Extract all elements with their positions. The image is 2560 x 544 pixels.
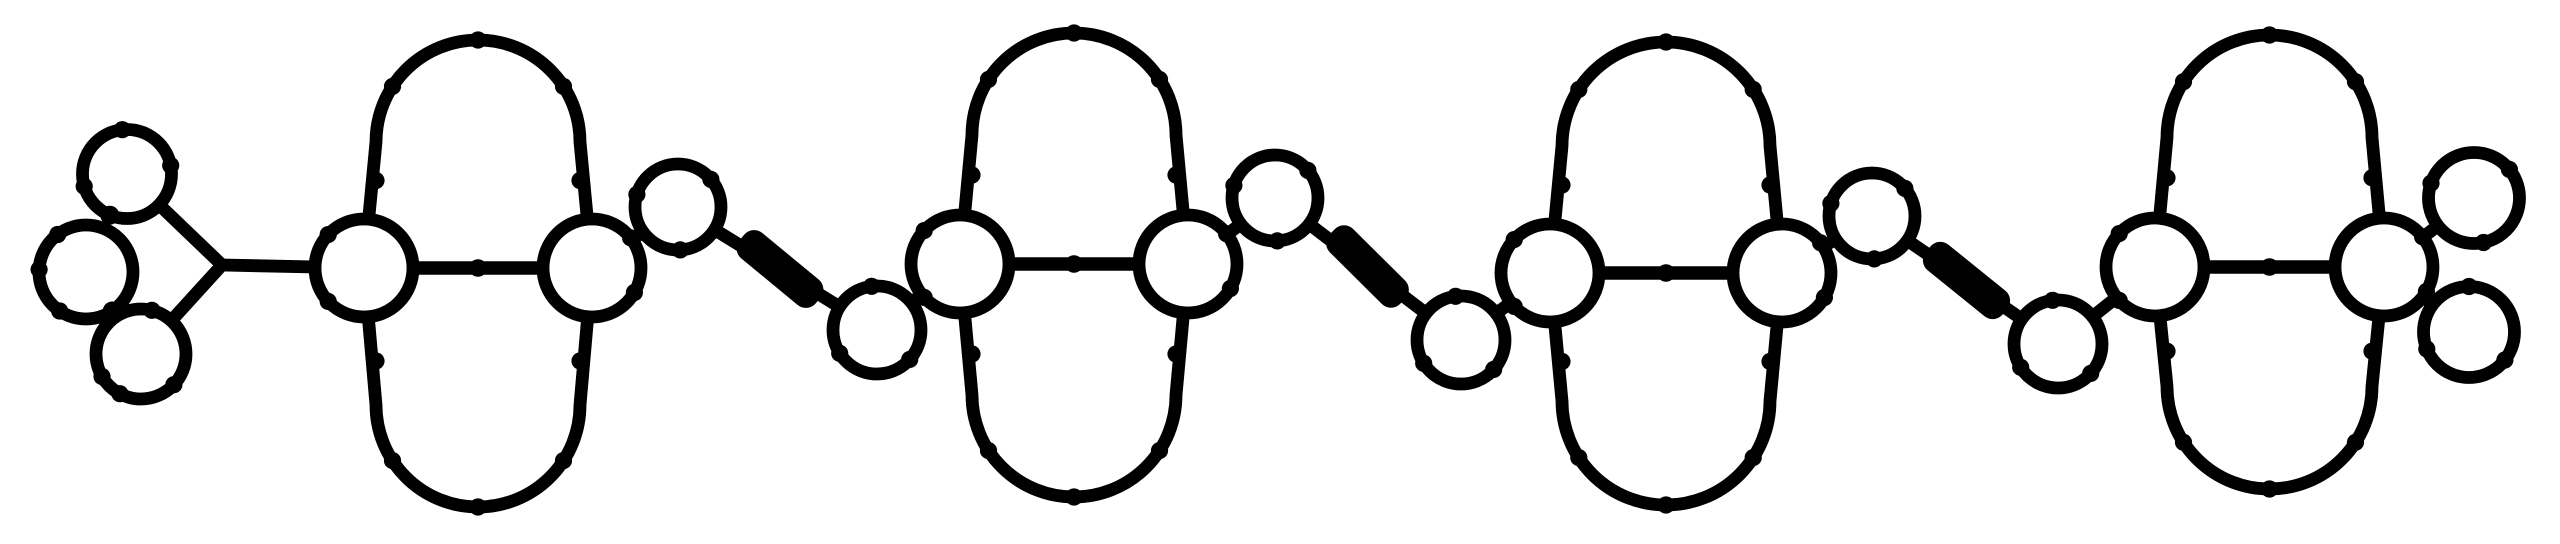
node dot at center of helix stem 1 xyxy=(469,259,487,277)
helix stem between loops of domain 4 xyxy=(2155,260,2384,274)
nucleotide dots on bottom loop of domain 4 xyxy=(2158,343,2380,498)
junction node between loops L and B xyxy=(103,302,122,321)
wire through helix H3 xyxy=(1872,216,2058,344)
multiloop circle M3R xyxy=(1733,224,1831,322)
nucleotide dots on multiloop circles of domain 1 xyxy=(320,226,643,310)
top hairpin loop of domain 1 xyxy=(364,40,592,268)
top hairpin loop of domain 2 xyxy=(960,33,1188,264)
interior loop circle C2b xyxy=(1417,296,1505,384)
wire from junction J to multiloop M1 xyxy=(222,265,364,268)
junction node between loops T and L xyxy=(100,206,119,225)
helix bar H1 xyxy=(731,225,828,313)
multiloop circle M4L xyxy=(2106,218,2204,316)
nucleotide dots on bottom loop of domain 2 xyxy=(963,345,1184,505)
bottom hairpin loop of domain 3 xyxy=(1550,273,1782,505)
nucleotide dots on top loop of domain 2 xyxy=(963,24,1184,183)
interior loop circle C2a xyxy=(1232,155,1318,241)
helix bar H2 xyxy=(1321,220,1415,313)
node dot at center of helix stem 2 xyxy=(1065,255,1083,273)
nucleotide dots on loop circle C3b xyxy=(2012,292,2099,382)
helix stem between loops of domain 2 xyxy=(960,257,1188,271)
wire from multiloop M3R to loop circle C3a xyxy=(1782,216,1872,273)
nucleotide dots on top loop of domain 4 xyxy=(2158,26,2380,186)
node dot at center of helix stem 4 xyxy=(2261,258,2279,276)
nucleotide dots on loop circle C3a xyxy=(1822,180,1913,268)
nucleotide dots on terminal loop TL xyxy=(2418,278,2513,369)
top hairpin loop of domain 4 xyxy=(2155,35,2384,267)
nucleotide dots on multiloop circles of domain 2 xyxy=(916,222,1239,306)
wire from multiloop M4R to terminal loop TU xyxy=(2384,198,2474,267)
multiloop circle M2R xyxy=(1139,215,1237,313)
nucleotide dots on loop B xyxy=(93,302,182,403)
wire from multiloop M4R to terminal loop TL xyxy=(2384,267,2469,332)
nucleotide dots on loop L xyxy=(30,226,68,320)
wire from multiloop M2R to loop circle C2a xyxy=(1188,198,1275,264)
helix stem between loops of domain 1 xyxy=(364,261,592,275)
node dot at center of helix stem 3 xyxy=(1657,264,1675,282)
nucleotide dots on multiloop circles of domain 4 xyxy=(2111,225,2435,309)
nucleotide dots on bottom loop of domain 1 xyxy=(367,352,588,515)
nucleotide dots on loop circle C2a xyxy=(1225,162,1316,250)
bottom hairpin loop of domain 1 xyxy=(364,268,592,507)
wire from loop circle C2b to multiloop M3L xyxy=(1461,273,1550,340)
multiloop circle M2L xyxy=(911,215,1009,313)
hairpin loop circle B (bottom of cloverleaf) xyxy=(96,309,186,399)
multiloop circle M3L xyxy=(1501,224,1599,322)
wire through helix H1 xyxy=(678,207,877,330)
nucleotide dots on top loop of domain 1 xyxy=(367,31,588,189)
wire from loop circle C3b to multiloop M4L xyxy=(2058,267,2155,344)
wire from multiloop M1R to loop circle C1a xyxy=(592,207,678,268)
hairpin loop circle L (left of cloverleaf) xyxy=(39,225,133,319)
bottom hairpin loop of domain 2 xyxy=(960,264,1188,497)
helix bar H3 xyxy=(1918,237,2016,325)
multiloop circle M1L xyxy=(315,219,413,317)
wire from hairpin loop B to junction J xyxy=(171,265,222,321)
interior loop circle C1a xyxy=(635,164,721,250)
nucleotide dots on loop circle C1b xyxy=(831,278,918,368)
top hairpin loop of domain 3 xyxy=(1550,42,1782,273)
wire through helix H2 xyxy=(1275,198,1461,340)
helix stem between loops of domain 3 xyxy=(1550,266,1782,280)
multiloop circle M4R xyxy=(2335,218,2433,316)
nucleotide dots on multiloop circles of domain 3 xyxy=(1506,231,1833,315)
nucleotide dots on loop circle C1a xyxy=(628,171,719,259)
multiloop circle M1R xyxy=(543,219,641,317)
interior loop circle C3a xyxy=(1829,173,1915,259)
terminal hairpin loop TL xyxy=(2424,287,2515,378)
nucleotide dots on loop T xyxy=(76,121,180,195)
terminal hairpin loop TU xyxy=(2429,153,2520,244)
nucleotide dots on terminal loop TU xyxy=(2422,161,2518,251)
hairpin loop circle T (top of cloverleaf) xyxy=(83,130,172,219)
nucleotide dots on top loop of domain 3 xyxy=(1553,33,1778,193)
wire from loop circle C1b to multiloop M2L xyxy=(877,264,960,330)
nucleotide dots on loop circle C2b xyxy=(1415,288,1502,378)
bottom hairpin loop of domain 4 xyxy=(2155,267,2384,489)
nucleotide dots on bottom loop of domain 3 xyxy=(1553,353,1778,514)
interior loop circle C1b xyxy=(833,286,921,374)
interior loop circle C3b xyxy=(2014,300,2102,388)
wire from hairpin loop T to junction J xyxy=(159,205,222,265)
